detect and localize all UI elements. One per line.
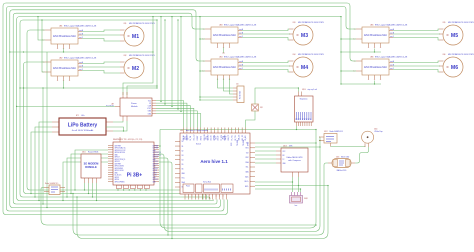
svg-text:M3: M3 [301,33,308,39]
svg-text:3V3 PWR: 3V3 PWR [115,163,121,165]
svg-text:TX: TX [283,159,285,161]
svg-text:Module: Module [131,106,138,108]
svg-text:ESC Brushless Mot: ESC Brushless Mot [53,66,76,70]
svg-text:CURNT: CURNT [197,135,199,140]
svg-text:GPIO25: GPIO25 [153,168,158,170]
svg-text:Power: Power [131,103,137,105]
GPS module U13 Ublox NEO6 [276,145,308,177]
radio U14 telemetry 500mW 915MHz air [319,131,343,147]
svg-text:5V: 5V [182,141,184,143]
svg-text:U$15: U$15 [336,156,340,158]
wire buzzer net from controller right pins [255,181,293,183]
svg-text:J$1: J$1 [236,84,239,86]
svg-text:GPIO4 GPCLK0: GPIO4 GPCLK0 [115,152,126,154]
power module U7 [106,92,156,121]
OSD module U15 Minim OSD [328,156,355,172]
svg-text:VCC_IN: VCC_IN [183,135,185,140]
svg-text:M4: M4 [301,65,308,71]
svg-text:GPIO6: GPIO6 [115,179,120,181]
svg-text:U$4: U$4 [219,56,222,58]
svg-text:S2: S2 [182,150,184,152]
svg-text:U$9: U$9 [180,130,183,132]
svg-text:StepDown: StepDown [300,98,308,101]
svg-text:ESC Layout 30A(+BEC 2A/5V) 2-4: ESC Layout 30A(+BEC 2A/5V) 2-4S [224,55,257,58]
motor M1 [120,22,156,46]
svg-text:GPIO17: GPIO17 [115,157,120,159]
svg-text:U$2: U$2 [124,55,127,57]
svg-text:GND: GND [153,181,156,183]
wire ESC1 bottom power bus [63,49,65,53]
regulator U10 step down 5V [295,88,318,126]
svg-text:SW_LED: SW_LED [207,135,209,141]
wire power module outputs to flight controller top pins [156,101,184,128]
wire regulator input from battery net [255,88,298,104]
connector J1 receiver header [233,84,244,103]
svg-text:U$5: U$5 [370,24,373,26]
wire battery + to power module bottom pin [113,121,123,122]
wire power rail verticals to power module area [123,17,153,95]
svg-text:U$6: U$6 [370,56,373,58]
svg-text:U$6: U$6 [443,54,446,56]
modem U11 3G dongle [81,152,101,184]
svg-text:ESC Brushless Mot: ESC Brushless Mot [364,33,387,37]
svg-text:VOLTG: VOLTG [200,136,202,141]
switch S1 safety [252,104,263,111]
servo M7 low-pass filter prop [362,129,383,148]
ESC speed controller U5 [353,23,408,47]
svg-text:GPIO24: GPIO24 [153,163,158,165]
ESC speed controller U1 [42,24,97,48]
svg-text:S4: S4 [182,159,184,161]
svg-text:M2: M2 [132,66,139,72]
wire switch to flight controller top pin [246,111,255,128]
wire ESC outputs to motor [82,62,120,64]
svg-text:Aero hive v1.1 flight controll: Aero hive v1.1 flight controller [186,129,209,132]
svg-text:Power: Power [186,186,190,188]
svg-text:ESC Layout 30A(+BEC 2A/5V) 2-4: ESC Layout 30A(+BEC 2A/5V) 2-4S [375,23,408,26]
svg-text:3V3 PWR: 3V3 PWR [115,145,121,147]
svg-text:ESC Brushless Mot: ESC Brushless Mot [213,33,236,37]
svg-text:5V PWR: 5V PWR [153,148,159,150]
svg-text:S1: S1 [182,146,184,148]
motor M3 [289,21,325,45]
svg-text:LED_5V: LED_5V [211,135,213,140]
ESC speed controller U2 [42,56,97,80]
svg-text:Servo Rail: Servo Rail [203,181,211,184]
motor M4 [289,53,325,77]
svg-text:M5: M5 [451,33,458,39]
svg-text:Radio 500MW 915: Radio 500MW 915 [45,183,58,185]
svg-text:GPIO13 PWM1: GPIO13 PWM1 [115,181,125,183]
svg-text:GND: GND [283,163,286,165]
motor M5 [439,21,474,45]
svg-text:GND_PM: GND_PM [187,134,189,141]
svg-text:buz: buz [295,205,298,207]
ESC speed controller U4 [202,55,257,79]
motor M2 [120,54,156,78]
svg-text:GPIO12: GPIO12 [153,179,158,181]
wire ESC outputs to motor [82,30,120,32]
wire power module left pin to V+ bus [17,105,115,107]
svg-text:GND_TX: GND_TX [228,135,230,141]
svg-text:SCL_I2C: SCL_I2C [242,135,244,141]
svg-text:U$3: U$3 [293,22,296,24]
svg-text:GPIO8: GPIO8 [153,170,158,172]
svg-text:ESC Brushless Mot: ESC Brushless Mot [364,65,387,69]
svg-text:GPIO7: GPIO7 [153,172,158,174]
svg-text:ESC Layout 30A(+BEC 2A/5V) 2-4: ESC Layout 30A(+BEC 2A/5V) 2-4S [64,24,97,27]
svg-text:U$1: U$1 [59,25,62,27]
svg-text:LiPo: LiPo [81,115,84,117]
wire ESC3 bottom net stub [223,48,225,54]
svg-text:M6: M6 [451,65,458,71]
svg-text:GND: GND [115,154,118,156]
svg-text:BUZ-: BUZ- [245,186,249,188]
wire long bottom loop to GPS / telemetry area [73,163,328,235]
svg-text:ID_SD I2C: ID_SD I2C [115,175,122,177]
wire 5V regulator bus to Pi area [160,129,316,131]
ESC speed controller U3 [202,23,257,47]
svg-text:LiPo Battery: LiPo Battery [68,123,98,129]
svg-text:VCC: VCC [283,151,286,153]
wire ESC outputs to motor [242,29,289,31]
svg-text:TX_TEL: TX_TEL [231,135,233,140]
svg-text:Switch: Switch [196,143,201,146]
svg-text:GPIO18: GPIO18 [153,157,158,159]
wire radio to servo filter [331,146,366,149]
svg-text:Pi 3B+: Pi 3B+ [127,173,143,179]
svg-text:VOLT: VOLT [147,108,151,110]
svg-text:S6: S6 [182,169,184,171]
svg-text:TELEM1: TELEM1 [237,140,239,146]
wire ESC4 bottom to receiver connector [218,79,234,89]
svg-text:ESC Layout 30A(+BEC 2A/5V) 2-4: ESC Layout 30A(+BEC 2A/5V) 2-4S [64,56,97,59]
svg-text:U$2: U$2 [59,57,62,59]
wire ESC2 bottom power bus [63,81,65,89]
svg-text:S5: S5 [182,164,184,166]
svg-text:GPIO27 PCM_D: GPIO27 PCM_D [115,159,126,161]
wire Pi left pins to bottom bus [75,150,108,190]
wire flight controller to GPS pins [255,150,276,152]
svg-text:RC IN 1X05: RC IN 1X05 [240,91,242,99]
svg-text:RX2: RX2 [246,157,249,159]
wire ESC6 bottom power bus [374,81,376,85]
svg-text:GND: GND [153,159,156,161]
wire servo filter to OSD [355,147,369,163]
radio U12 telemetry 500mW 915MHz [44,183,65,195]
wire battery mid tap [106,127,124,131]
wire ESC outputs to motor [393,61,439,63]
svg-text:ESC Layout 30A(+BEC 2A/5V) 2-4: ESC Layout 30A(+BEC 2A/5V) 2-4S [375,55,408,58]
svg-text:BUZ+: BUZ+ [245,181,249,183]
svg-text:RASPBERRY PI3 - GPIO(B+, PI2,: RASPBERRY PI3 - GPIO(B+, PI2, PI3) [113,138,143,141]
svg-text:U$4: U$4 [293,54,296,56]
svg-text:GND: GND [115,172,118,174]
svg-text:GPIO22: GPIO22 [115,161,120,163]
svg-text:RX_GPS: RX_GPS [225,135,227,141]
svg-text:MULTISTAR ELITE 5010 274KV: MULTISTAR ELITE 5010 274KV [448,21,474,24]
wire ESC outputs to motor [242,61,289,63]
svg-text:GND_SW: GND_SW [204,134,206,141]
wire ESC outputs to motor [393,29,439,31]
svg-text:4-cell 14.8V 5200mAh: 4-cell 14.8V 5200mAh [72,129,94,132]
svg-text:Ublox NEO6 GPS: Ublox NEO6 GPS [287,157,304,159]
svg-text:GPS: GPS [231,143,233,146]
motor M6 [439,53,474,77]
svg-text:RX1: RX1 [246,148,249,150]
wire flight controller telemetry to bundle [255,142,316,144]
wire battery - to power module bottom pin [113,121,127,131]
svg-text:ESC Brushless Mot: ESC Brushless Mot [53,34,76,38]
svg-text:SG$1: SG$1 [304,198,308,200]
svg-text:12: 12 [222,195,224,197]
wire Pi right pins to long bottom loop [159,130,316,229]
svg-text:GPIO5: GPIO5 [115,177,120,179]
svg-text:BT1: BT1 [76,115,79,117]
svg-text:RX_TEL: RX_TEL [235,135,237,140]
svg-text:Aero hive 1.1: Aero hive 1.1 [200,159,228,164]
svg-text:Huawei E3531: Huawei E3531 [88,152,98,154]
svg-text:U$14: U$14 [374,129,378,131]
svg-text:TX_GPS: TX_GPS [221,135,223,141]
svg-text:GPIO9 MISO: GPIO9 MISO [115,168,124,170]
svg-text:U$1: U$1 [124,23,127,25]
wire main-out signal bus nest (top-left, down left edge, bottom bus to flight controller) [3,3,356,215]
svg-text:U$7: U$7 [111,104,114,106]
svg-text:DONGLE: DONGLE [85,165,97,169]
svg-text:5V PWR: 5V PWR [153,145,159,147]
wire Pi bottom pins to bus [117,188,119,191]
svg-text:MULTISTAR ELITE 5010 274KV: MULTISTAR ELITE 5010 274KV [448,53,474,56]
ESC speed controller U6 [353,55,408,79]
svg-text:with Compass: with Compass [288,159,301,162]
svg-text:ESC Layout 30A(+BEC 2A/5V) 2-4: ESC Layout 30A(+BEC 2A/5V) 2-4S [224,23,257,26]
svg-text:U$3: U$3 [219,24,222,26]
svg-text:GPIO3 SCL1 I2C: GPIO3 SCL1 I2C [115,150,126,152]
svg-text:MULTISTAR ELITE 5010 274KV: MULTISTAR ELITE 5010 274KV [298,21,325,24]
svg-text:M1: M1 [132,34,139,40]
svg-text:5V_PER: 5V_PER [214,135,216,140]
svg-text:GPIO10 MOSI: GPIO10 MOSI [115,166,125,168]
svg-text:GND: GND [153,177,156,179]
svg-text:GPIO23: GPIO23 [153,161,158,163]
svg-text:GND: GND [153,166,156,168]
svg-text:Minim OSD: Minim OSD [341,156,350,158]
svg-text:Pow Modul: Pow Modul [106,106,115,108]
svg-text:U$5: U$5 [443,22,446,24]
svg-text:TX1: TX1 [246,143,249,145]
svg-text:U$12: U$12 [324,131,328,133]
wire battery balance leads to bottom bus [39,122,52,201]
svg-text:3G MODEM: 3G MODEM [84,162,99,166]
wire ESC5 bottom power bus [374,49,376,53]
svg-text:GND: GND [153,150,156,152]
svg-text:RX: RX [283,155,285,157]
svg-text:MULTISTAR ELITE 5010 274KV: MULTISTAR ELITE 5010 274KV [298,53,325,56]
svg-text:VCC_CU: VCC_CU [193,135,195,141]
battery BT1 LiPo [52,115,113,135]
flight controller U9 Aero hive 1.1 [175,128,255,200]
wire modem pins to bottom bus [84,183,86,190]
svg-text:11: 11 [219,195,221,197]
Raspberry Pi 3B+ U8 [108,137,161,189]
svg-text:Radio 500MW 915: Radio 500MW 915 [330,131,343,133]
svg-text:U$10: U$10 [302,89,306,91]
svg-text:S$1: S$1 [260,107,263,109]
svg-text:U$11: U$11 [82,152,86,154]
svg-text:MULTISTAR ELITE 5010 274KV: MULTISTAR ELITE 5010 274KV [129,22,156,25]
svg-text:5V: 5V [149,103,151,105]
svg-text:TX2: TX2 [246,152,249,154]
svg-text:MULTISTAR ELITE 5010 274KV: MULTISTAR ELITE 5010 274KV [129,54,156,57]
svg-text:ESC Brushless Mot: ESC Brushless Mot [213,65,236,69]
wire battery V+ rail drops to ESC bat pins [340,17,342,84]
buzzer SG1 piezo [290,192,309,207]
svg-text:SCL: SCL [246,167,249,169]
svg-text:TELEM2: TELEM2 [243,140,245,146]
svg-text:S3: S3 [182,155,184,157]
svg-text:GPIO11 SCLK: GPIO11 SCLK [115,170,124,172]
svg-text:ID_SC: ID_SC [153,175,157,177]
svg-text:10: 10 [215,195,217,197]
